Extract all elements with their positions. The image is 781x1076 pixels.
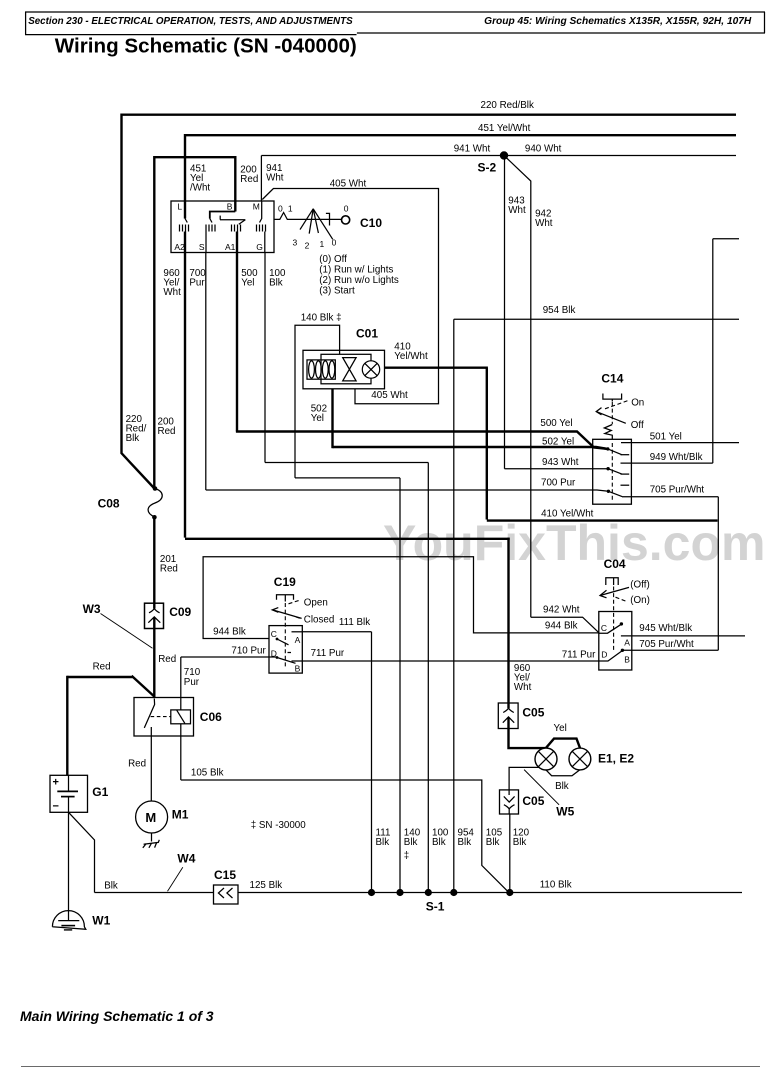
svg-text:/Wht: /Wht [190, 183, 210, 194]
label Blk (bus) [104, 880, 118, 891]
label 705 Pur/Wht (C14) [650, 484, 705, 495]
label 410 Yel/Wht (at C01) [394, 341, 428, 362]
C04 Off position [630, 580, 649, 591]
label 710 Pur [184, 667, 201, 688]
svg-text:Yel: Yel [554, 723, 567, 734]
label 201 Red [160, 554, 178, 575]
C19 dashed stem [284, 603, 286, 668]
wire 943 Wht vertical from S-2 [504, 156, 506, 469]
svg-text:Blk: Blk [376, 837, 390, 848]
label 111 Blk (at C19) [339, 617, 370, 628]
svg-text:S: S [199, 242, 205, 252]
C19 actuator bracket [277, 595, 294, 602]
wire 700 Pur from C10 S [205, 232, 207, 491]
svg-text:705 Pur/Wht: 705 Pur/Wht [639, 639, 694, 650]
wire 705 Pur/Wht (C14 side) [622, 497, 718, 650]
svg-text:501 Yel: 501 Yel [650, 431, 682, 442]
node S-2 junction dot [500, 151, 508, 159]
G1 internals [53, 775, 79, 812]
label C19 terminal A [295, 635, 301, 645]
svg-text:(3) Start: (3) Start [319, 285, 355, 296]
C04 dashed stem [613, 587, 615, 652]
header right underline [357, 32, 765, 34]
svg-text:C10: C10 [360, 216, 382, 230]
label 111 Blk (bottom) [376, 827, 391, 848]
label 943 Wht (below S-2) [508, 195, 526, 216]
label C10 terminal G [256, 242, 263, 252]
svg-text:C01: C01 [356, 326, 378, 340]
label 500 Yel (below C10) [241, 268, 258, 289]
key switch stop bar [326, 213, 330, 225]
C19 A contact tick [292, 631, 303, 633]
connector C08 inline splice [148, 486, 162, 519]
wire 120 Blk to S-1 [508, 809, 511, 893]
label 700 Pur (below C10) [189, 268, 206, 289]
C10 wiper blade bar [220, 216, 245, 225]
svg-text:+: + [53, 777, 59, 789]
wire 111 Blk from C19 A [302, 632, 371, 893]
wire 105 Blk from C06 coil [181, 724, 509, 893]
C19 D arm [276, 656, 296, 663]
wire 705 Pur/Wht from C04 B [622, 649, 718, 651]
starter motor M1 [136, 801, 168, 833]
label 140 Blk ‡ [301, 313, 342, 324]
svg-text:710 Pur: 710 Pur [231, 645, 266, 656]
label C06 [200, 710, 222, 724]
svg-text:700 Pur: 700 Pur [541, 477, 576, 488]
label Yel (lamp hump) [554, 723, 567, 734]
C09 crow-foot and chevron [148, 603, 160, 623]
wire 700 Pur horizontal run to C14 [206, 490, 609, 491]
label 1 (key detent) [288, 204, 293, 214]
label Red (battery elbow) [93, 662, 111, 673]
label 120 Blk (bottom) [513, 827, 530, 848]
connector C09 box [145, 603, 164, 628]
label C10 terminal A2 [174, 242, 185, 252]
wire 410 Yel/Wht from C01 lamp [385, 368, 718, 521]
C19 B contact tick [292, 660, 303, 662]
relay C06 box [134, 698, 194, 737]
header top rule [25, 12, 765, 35]
svg-text:B: B [227, 201, 233, 211]
label 705 Pur/Wht (at C04) [639, 639, 694, 650]
wire 944 Blk loop (S-2 side) [203, 557, 599, 639]
label C10 [360, 216, 382, 230]
svg-text:944 Blk: 944 Blk [213, 626, 246, 637]
svg-text:Closed: Closed [304, 615, 335, 626]
node S-1 junction dots [368, 889, 513, 896]
svg-text:111 Blk: 111 Blk [339, 617, 370, 628]
ground W1 symbol [52, 911, 85, 930]
svg-text:711 Pur: 711 Pur [311, 648, 345, 659]
wire 941 Wht / 940 Wht bus [261, 155, 736, 157]
label E1, E2 [598, 752, 634, 766]
svg-text:Wiring Schematic (SN -040000): Wiring Schematic (SN -040000) [55, 35, 357, 58]
wire Blk lamps to lower C05 [509, 767, 539, 790]
switch C19 connector box [269, 626, 302, 674]
svg-text:0: 0 [344, 204, 349, 214]
C15 chevrons [218, 888, 232, 898]
wire 100 Blk from C10 G [264, 232, 266, 463]
wire 710 Pur C06 coil to C19 D [181, 657, 277, 710]
bottom caption [20, 1008, 214, 1024]
label 711 Pur (left) [311, 648, 345, 659]
label fan position 1 [320, 239, 325, 249]
label C10 terminal S [199, 242, 205, 252]
wire 945 Wht/Blk from C04 A [621, 635, 745, 637]
label C01 [356, 326, 378, 340]
svg-text:C19: C19 [274, 575, 296, 589]
wire 960 Yel/Wht from C10 L [184, 232, 186, 538]
label 711 Pur (right) [562, 649, 596, 660]
svg-text:YouFixThis.com: YouFixThis.com [383, 515, 765, 571]
label 949 Wht/Blk [650, 452, 703, 463]
label 944 Blk (at C19) [213, 626, 246, 637]
label S-1 [426, 900, 445, 914]
svg-text:Red: Red [240, 174, 258, 185]
svg-text:‡ SN -30000: ‡ SN -30000 [251, 820, 307, 831]
svg-text:W3: W3 [83, 602, 101, 616]
label C19 terminal C [271, 629, 277, 639]
C19 C arm [276, 638, 289, 645]
label 200 Red (at C10) [240, 164, 258, 185]
svg-text:500 Yel: 500 Yel [540, 418, 572, 429]
wire 943 Wht horizontal run to C14 [505, 468, 608, 470]
label 941 Wht [454, 144, 491, 155]
label Red (to M1) [128, 759, 146, 770]
svg-text:Yel: Yel [241, 278, 254, 289]
wire Red battery feed elbow [67, 676, 154, 776]
bottom rule [21, 1066, 760, 1068]
wire Blk bus to C15 [95, 892, 214, 894]
svg-text:S-2: S-2 [478, 161, 497, 175]
label 105 Blk (bottom) [486, 827, 503, 848]
wire 960 Yel/Wht horizontal run [185, 538, 510, 703]
svg-text:Blk: Blk [126, 433, 140, 444]
label C04 terminal D [601, 649, 607, 659]
svg-text:125 Blk: 125 Blk [250, 880, 283, 891]
wire 451 Yel/Wht drop into C10 L [184, 134, 186, 219]
C14 dashed stem [611, 443, 613, 500]
svg-text:Red: Red [160, 564, 178, 575]
label C04 terminal A [624, 637, 630, 647]
C19 center dash mark [288, 652, 292, 654]
watermark YouFixThis.com [383, 515, 765, 571]
C14 actuator bracket [603, 394, 622, 400]
label key positions legend [319, 254, 399, 296]
label Red (below C09) [158, 654, 176, 665]
wire 220 Red/Blk top bus [122, 113, 737, 115]
svg-text:Blk: Blk [458, 837, 472, 848]
svg-text:A1: A1 [225, 242, 236, 252]
label G1 [92, 785, 108, 799]
C06 coil box [171, 710, 191, 724]
svg-text:Group 45: Wiring Schematics X1: Group 45: Wiring Schematics X135R, X155R… [484, 16, 752, 27]
headlamps E1 E2 [535, 748, 591, 770]
C10 contact comb column S [206, 225, 215, 232]
lamp module C01 outer box [303, 350, 385, 389]
svg-text:W5: W5 [556, 804, 574, 818]
svg-text:Red: Red [158, 426, 176, 437]
wire 941 Wht drop to C10 M [260, 156, 262, 202]
label 405 Wht (top) [330, 178, 367, 189]
svg-text:D: D [601, 649, 607, 659]
wire 502 Yel from C01 [333, 389, 608, 449]
svg-text:940 Wht: 940 Wht [525, 144, 562, 155]
label 501 Yel [650, 431, 682, 442]
svg-text:On: On [631, 398, 644, 409]
wire 500 Yel from C10 A1 [236, 232, 238, 432]
label 500 Yel (right) [540, 418, 572, 429]
svg-text:Pur: Pur [184, 677, 200, 688]
svg-text:Wht: Wht [163, 287, 181, 298]
svg-text:C09: C09 [169, 605, 191, 619]
svg-text:Wht: Wht [535, 218, 553, 229]
svg-text:405 Wht: 405 Wht [330, 178, 367, 189]
svg-text:451 Yel/Wht: 451 Yel/Wht [478, 123, 531, 134]
wire battery to black bus [69, 812, 95, 892]
label 700 Pur (right) [541, 477, 576, 488]
label C08 [98, 497, 120, 511]
label Blk (lamps) [555, 781, 569, 792]
label W1 [92, 913, 110, 927]
svg-text:2: 2 [305, 241, 310, 251]
wire 220 Red/Blk left drop [122, 114, 155, 489]
C19 switch arm [272, 608, 301, 619]
C06 dashed link [151, 716, 171, 718]
svg-text:Blk: Blk [486, 837, 500, 848]
label 954 Blk (top) [543, 305, 576, 316]
svg-text:B: B [295, 664, 301, 674]
label C04 [604, 557, 626, 571]
C01 inner box [321, 354, 371, 384]
svg-text:Main Wiring Schematic 1 of 3: Main Wiring Schematic 1 of 3 [20, 1008, 214, 1024]
svg-text:945 Wht/Blk: 945 Wht/Blk [639, 623, 692, 634]
label 451 Yel /Wht (at C10) [190, 163, 210, 193]
svg-text:Yel: Yel [311, 413, 324, 424]
label C10 terminal A1 [225, 242, 236, 252]
label fan position 3 [293, 238, 298, 248]
label C19 [274, 575, 296, 589]
svg-text:−: − [53, 801, 59, 813]
svg-text:140 Blk ‡: 140 Blk ‡ [301, 313, 342, 324]
wire 140 Blk at C01 [295, 325, 340, 478]
svg-text:(0) Off: (0) Off [319, 254, 347, 265]
svg-text:W1: W1 [92, 913, 110, 927]
svg-text:944 Blk: 944 Blk [545, 620, 578, 631]
label W3 with leader [83, 602, 153, 648]
C05 lower chevron and crow-foot [504, 790, 515, 809]
C04 On position [616, 595, 650, 606]
label C04 terminal B [624, 654, 630, 664]
svg-text:C14: C14 [601, 372, 623, 386]
label 943 Wht (right) [542, 457, 579, 468]
svg-text:S-1: S-1 [426, 900, 445, 914]
svg-text:Blk: Blk [432, 837, 446, 848]
wire 954 Blk bus [454, 319, 739, 892]
wire 100 Blk horizontal and drop [265, 463, 428, 893]
label 410 Yel/Wht (right) [541, 509, 594, 520]
header right text [484, 16, 752, 27]
svg-text:941 Wht: 941 Wht [454, 144, 491, 155]
header left text [28, 16, 353, 27]
svg-text:C15: C15 [214, 868, 236, 882]
label 220 Red/ Blk (left) [126, 414, 147, 444]
svg-text:Wht: Wht [508, 205, 526, 216]
connector C05 upper box [498, 703, 518, 729]
svg-text:Wht: Wht [266, 172, 284, 183]
C10 contact comb column A1 [232, 225, 241, 232]
svg-text:M: M [253, 201, 260, 211]
svg-text:220 Red/Blk: 220 Red/Blk [481, 100, 534, 111]
svg-text:Blk: Blk [555, 781, 569, 792]
label S-2 [478, 161, 497, 175]
wire 960 Yel C05 to lamps [509, 717, 581, 748]
svg-text:Section 230 - ELECTRICAL OPERA: Section 230 - ELECTRICAL OPERATION, TEST… [28, 16, 353, 27]
C01 indicator lamp circle [362, 361, 379, 378]
svg-text:Blk: Blk [404, 837, 418, 848]
svg-text:C: C [271, 629, 277, 639]
svg-text:Wht: Wht [514, 682, 532, 693]
C10 B-to-S elbow [210, 212, 236, 223]
connector C10 box [171, 201, 274, 253]
label 220 Red/Blk [481, 100, 534, 111]
label C04 terminal C [601, 623, 607, 633]
C10 M column wire [260, 201, 262, 223]
header left underline [25, 34, 357, 36]
label 502 Yel (right) [542, 436, 574, 447]
svg-text:110 Blk: 110 Blk [540, 879, 572, 890]
wire 451 Yel/Wht top bus [185, 134, 736, 136]
svg-text:Red: Red [128, 759, 146, 770]
C01 hourglass symbol [343, 358, 356, 381]
svg-text:705 Pur/Wht: 705 Pur/Wht [650, 484, 705, 495]
label 940 Wht [525, 144, 562, 155]
svg-text:B: B [624, 654, 630, 664]
key switch connector circle [342, 216, 350, 224]
label 140 Blk ‡ (bottom) [404, 827, 421, 861]
svg-text:3: 3 [293, 238, 298, 248]
C14 pole 1 dot and arm [606, 447, 622, 455]
C10 contact comb column L [180, 219, 189, 232]
label C10 terminal L [177, 201, 182, 211]
label fan position 2 [305, 241, 310, 251]
wire battery negative to ground W1 [68, 812, 70, 920]
svg-text:M: M [145, 810, 156, 825]
switch C04 connector box [599, 612, 632, 671]
label 200 Red (left drop) [158, 416, 176, 437]
svg-text:C: C [601, 623, 607, 633]
wire 201 Red to C09 [153, 518, 155, 604]
label ‡ SN -30000 [251, 820, 307, 831]
svg-text:C04: C04 [604, 557, 626, 571]
C14 pole 2 dot and arm [606, 467, 622, 474]
svg-text:E1, E2: E1, E2 [598, 752, 634, 766]
svg-text:L: L [177, 201, 182, 211]
label fan position 0 [332, 238, 337, 248]
label 125 Blk [250, 880, 283, 891]
label C19 terminal D [271, 649, 277, 659]
svg-text:105 Blk: 105 Blk [191, 768, 224, 779]
wire 942 Wht into C04 C [531, 617, 599, 633]
C14 On position [605, 398, 644, 409]
svg-text:0: 0 [332, 238, 337, 248]
label 0 (above circle) [344, 204, 349, 214]
svg-text:C06: C06 [200, 710, 222, 724]
svg-text:M1: M1 [172, 808, 189, 822]
svg-text:502 Yel: 502 Yel [542, 436, 574, 447]
C04 C arm and contact dot [599, 622, 623, 633]
C14 fixed contact ticks [621, 455, 630, 486]
svg-text:C05: C05 [522, 705, 544, 719]
svg-text:A: A [624, 637, 630, 647]
key switch position fan [300, 209, 333, 240]
label 100 Blk (bottom) [432, 827, 449, 848]
svg-text:410 Yel/Wht: 410 Yel/Wht [541, 509, 594, 520]
label C19 terminal B [295, 664, 301, 674]
wire 200 Red jumper [154, 156, 235, 488]
svg-text:Red: Red [93, 662, 111, 673]
svg-text:Pur: Pur [189, 278, 205, 289]
label C10 terminal M [253, 201, 260, 211]
svg-text:(On): (On) [630, 595, 650, 606]
label 710 Pur (at C19 D) [231, 645, 266, 656]
C04 switch arm [600, 587, 629, 597]
connector C05 lower box [500, 790, 519, 814]
connector C15 box [214, 885, 239, 904]
svg-text:(Off): (Off) [630, 580, 649, 591]
svg-text:949 Wht/Blk: 949 Wht/Blk [650, 452, 703, 463]
svg-text:A2: A2 [174, 242, 185, 252]
label 960 Yel/ Wht (at C05) [514, 663, 532, 693]
svg-text:Red: Red [158, 654, 176, 665]
svg-text:C08: C08 [98, 497, 120, 511]
page title [55, 35, 357, 58]
wire Blk lamp return under-hump [546, 770, 580, 776]
svg-text:943 Wht: 943 Wht [542, 457, 579, 468]
label C05 (upper) [522, 705, 544, 719]
label 942 Wht (at C04) [543, 605, 580, 616]
label 100 Blk (below C10) [269, 268, 286, 289]
svg-text:W4: W4 [177, 851, 195, 865]
C04 D arm and contact dot [599, 649, 624, 661]
label W4 with leader [168, 851, 196, 891]
svg-text:405 Wht: 405 Wht [371, 390, 408, 401]
C04 actuator bracket [606, 578, 618, 585]
label 405 Wht (bottom) [371, 390, 408, 401]
label 942 Wht (below S-2) [535, 209, 553, 230]
label C09 [169, 605, 191, 619]
C10 contact comb column M/G [257, 225, 266, 232]
label C10 terminal B [227, 201, 233, 211]
svg-text:Blk: Blk [513, 837, 527, 848]
label W5 with leader [524, 770, 575, 819]
wire Red C06 to M1 [150, 731, 152, 801]
svg-text:Off: Off [631, 420, 644, 431]
key switch zigzag 0-1 [274, 213, 341, 220]
wire 125 Blk / 110 Blk ground bus [238, 892, 742, 894]
svg-text:(2) Run w/o Lights: (2) Run w/o Lights [319, 275, 399, 286]
wire 949 Wht/Blk [621, 239, 740, 463]
C14 spring arm [596, 399, 626, 439]
wire 405 Wht loop [262, 189, 438, 404]
svg-text:1: 1 [288, 204, 293, 214]
switch C14 connector box [593, 439, 632, 504]
label C15 [214, 868, 236, 882]
C14 Off position [631, 420, 644, 431]
C06 switch arm [144, 699, 154, 732]
svg-text:Yel/Wht: Yel/Wht [394, 351, 428, 362]
